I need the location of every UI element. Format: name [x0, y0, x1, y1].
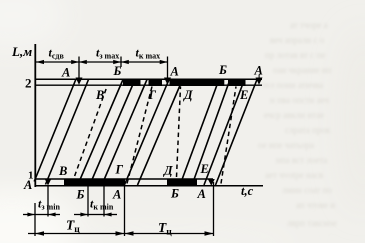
trip line 1: [34, 80, 76, 182]
bottom bar 2: [167, 179, 197, 186]
svg-text:А: А: [170, 65, 179, 79]
dashed В-В: [72, 87, 107, 184]
top bar A: [123, 79, 141, 86]
down arrow at A1 on band: [76, 78, 83, 85]
top bar C: [170, 79, 225, 86]
top bar D: [228, 79, 246, 86]
svg-text:Е: Е: [200, 162, 209, 176]
dashed Е-Е: [221, 87, 236, 184]
arrowheads t_k max: [121, 60, 129, 64]
t_z min outside arrow tails: [23, 214, 35, 216]
level 2 band bottom line: [35, 84, 262, 86]
svg-text:Г: Г: [115, 163, 124, 177]
t_z min arrows: [27, 213, 35, 217]
level 2 band top line: [35, 78, 262, 80]
down arrow at A3 bottom: [208, 179, 215, 186]
trip line 5: [102, 80, 147, 186]
tick at A1: [78, 57, 80, 79]
trip line 3: [78, 80, 123, 186]
svg-text:Б: Б: [76, 188, 85, 202]
svg-text:А: А: [23, 178, 32, 192]
T_c dim line 1: [28, 233, 125, 235]
svg-text:Б: Б: [170, 187, 179, 201]
T_c right tick: [213, 182, 215, 236]
T_c mid tick: [124, 187, 126, 237]
svg-text:тел пони атичва: тел пони атичва: [262, 80, 323, 90]
svg-text:лврп таксное: лврп таксное: [287, 218, 337, 228]
trip line 10: [204, 80, 245, 186]
svg-text:А: А: [61, 66, 70, 80]
svg-text:Д: Д: [183, 88, 193, 102]
bleed-through faint text right side: [258, 20, 337, 228]
top bar B: [149, 79, 163, 86]
svg-text:А: А: [112, 188, 121, 202]
svg-text:L,м: L,м: [11, 44, 32, 59]
down arrow at foot2: [45, 179, 52, 186]
svg-text:Б: Б: [218, 63, 227, 77]
down arrow tick at t_z min right: [47, 186, 49, 217]
T_c dim line 2: [125, 233, 214, 235]
t_k min arrows: [80, 213, 88, 217]
svg-text:оаи чкрание нп: оаи чкрание нп: [273, 65, 332, 75]
svg-text:ое ипе чатьора: ое ипе чатьора: [258, 140, 314, 150]
svg-text:А: А: [254, 64, 263, 78]
t_k min arrow tails: [74, 214, 88, 216]
white notch at L9 crossing: [223, 78, 225, 80]
dim line t_z max: [79, 61, 121, 63]
svg-text:В: В: [95, 88, 104, 102]
svg-text:ечср авкли нтае: ечср авкли нтае: [264, 110, 324, 120]
t_k min ticks: [87, 186, 89, 217]
svg-text:Б: Б: [113, 64, 122, 78]
bottom bar 1: [64, 179, 125, 186]
down arrow at A3 on band: [256, 78, 263, 85]
svg-text:2: 2: [25, 76, 32, 91]
dim line t_sdv: [36, 61, 79, 63]
svg-text:Д: Д: [163, 164, 173, 178]
L axis (vertical): [34, 44, 36, 187]
dashed Г-Г: [127, 87, 152, 184]
tick above A3 arrow: [259, 75, 260, 79]
arrowheads t_sdv: [36, 60, 44, 64]
trip line 11: [216, 80, 258, 186]
trip line 4: [90, 80, 135, 186]
trip line 9: [192, 80, 230, 186]
trip line 7: [138, 80, 183, 186]
svg-text:ат тчоре а: ат тчоре а: [290, 20, 328, 30]
tick at B1: [120, 57, 122, 68]
arrowheads t_z max: [79, 60, 87, 64]
trip line 8: [180, 80, 219, 186]
level 1 band top line: [35, 178, 213, 180]
svg-text:Е: Е: [239, 88, 248, 102]
svg-text:веч апрали с о: веч апрали с о: [270, 35, 325, 45]
t axis (horizontal): [35, 185, 264, 187]
svg-text:ает чvotре насв: ает чvotре насв: [265, 170, 323, 180]
T_c arrows: [35, 231, 44, 235]
down arrow at A2 on band: [164, 78, 171, 85]
dashed Д-Д: [177, 87, 181, 178]
svg-text:слрата прок: слрата прок: [285, 125, 331, 135]
tick at A2: [167, 57, 169, 79]
dim line t_k max: [121, 61, 168, 63]
svg-text:нпа вст лоета: нпа вст лоета: [276, 155, 327, 165]
svg-text:лмин соат по: лмин соат по: [282, 185, 332, 195]
svg-text:В: В: [58, 164, 67, 178]
trip line 6: [124, 80, 169, 186]
trip line 2: [46, 80, 89, 185]
svg-text:Г: Г: [148, 88, 157, 102]
svg-text:ап чтове и: ап чтове и: [296, 200, 335, 210]
svg-text:А: А: [197, 187, 206, 201]
svg-text:н пва опсти аеч: н пва опсти аеч: [270, 95, 329, 105]
svg-text:t,с: t,с: [241, 184, 254, 198]
svg-text:пр лотав вт с пе: пр лотав вт с пе: [265, 50, 325, 60]
left tick at axis bottom: [34, 203, 36, 236]
